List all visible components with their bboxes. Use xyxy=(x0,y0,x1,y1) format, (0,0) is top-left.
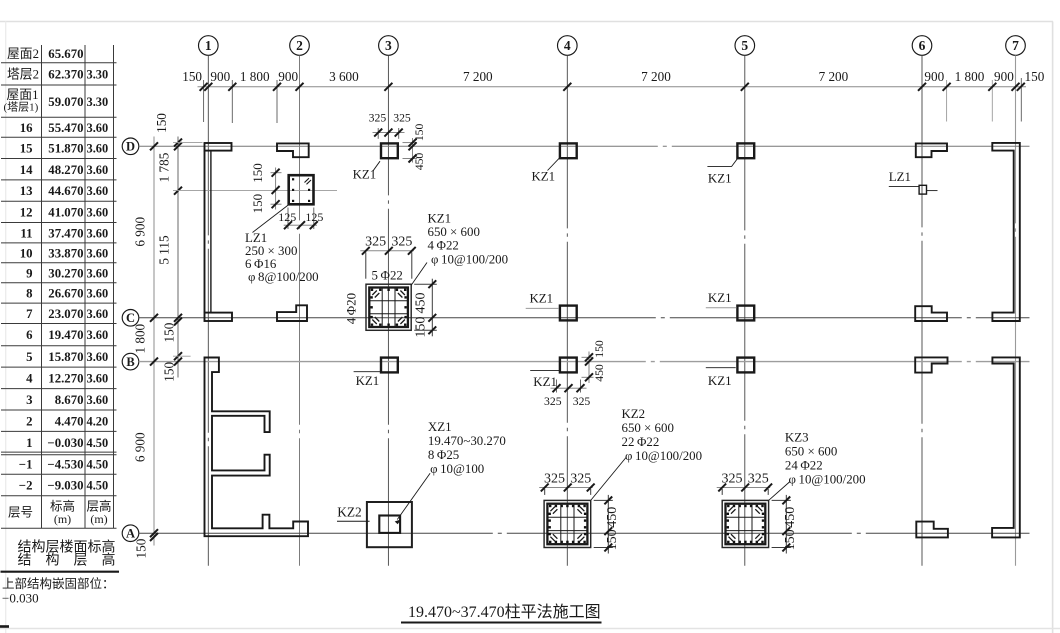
wall W3 pier C/axis2 xyxy=(277,305,307,321)
svg-text:65.670: 65.670 xyxy=(48,47,83,61)
svg-text:51.870: 51.870 xyxy=(48,141,83,155)
svg-text:3.30: 3.30 xyxy=(87,95,109,109)
KZ1 section dim 325/325 xyxy=(365,252,367,278)
svg-text:3.60: 3.60 xyxy=(87,163,109,177)
svg-text:16: 16 xyxy=(20,121,33,135)
svg-text:3.60: 3.60 xyxy=(87,328,109,342)
KZ1 section detail xyxy=(366,284,411,330)
KZ3 section detail xyxy=(722,500,768,547)
svg-text:450: 450 xyxy=(593,364,606,382)
svg-text:3.60: 3.60 xyxy=(87,266,109,280)
svg-text:33.870: 33.870 xyxy=(48,247,83,261)
svg-text:XZ1: XZ1 xyxy=(428,420,452,434)
label KZ1 C/axis5 xyxy=(706,307,737,309)
svg-text:3.60: 3.60 xyxy=(87,372,109,386)
svg-text:4.50: 4.50 xyxy=(87,458,109,472)
KZ2 square at A/axis3 xyxy=(367,502,412,547)
svg-text:4 Φ22: 4 Φ22 xyxy=(428,239,459,253)
note rule xyxy=(1,571,120,573)
storey table grid lines xyxy=(1,45,117,528)
top dimension extension lines xyxy=(203,80,205,122)
svg-text:900: 900 xyxy=(278,69,298,84)
svg-text:3 600: 3 600 xyxy=(329,69,359,84)
svg-text:9: 9 xyxy=(26,266,32,280)
svg-text:屋面1: 屋面1 xyxy=(7,88,39,102)
svg-text:KZ1: KZ1 xyxy=(533,375,557,389)
svg-text:55.470: 55.470 xyxy=(48,121,83,135)
KZ3 section dim 450/150 xyxy=(772,499,791,501)
svg-text:15.870: 15.870 xyxy=(48,350,83,364)
XZ1 core square xyxy=(379,516,400,533)
svg-text:8: 8 xyxy=(26,287,32,301)
svg-text:450: 450 xyxy=(413,153,426,171)
svg-text:−0.030: −0.030 xyxy=(47,436,83,450)
svg-text:2: 2 xyxy=(26,414,32,428)
svg-text:4: 4 xyxy=(564,38,571,53)
dim 325/325 above D/axis3 column xyxy=(377,128,379,139)
svg-text:5: 5 xyxy=(26,350,32,364)
svg-text:900: 900 xyxy=(210,69,230,84)
left dimension ticks inner xyxy=(174,139,182,147)
svg-text:650 × 600: 650 × 600 xyxy=(428,225,480,239)
LZ1 detail dim 125/125 xyxy=(287,208,289,230)
svg-text:450: 450 xyxy=(605,507,620,528)
svg-text:KZ3: KZ3 xyxy=(785,431,809,445)
svg-text:3.30: 3.30 xyxy=(87,68,109,82)
svg-text:1 800: 1 800 xyxy=(240,69,270,84)
svg-text:62.370: 62.370 xyxy=(48,68,83,82)
wall W7 pier C/axis6 xyxy=(915,306,947,321)
svg-text:层号: 层号 xyxy=(8,506,33,520)
LZ1 detail dim 150/150 xyxy=(271,172,282,174)
column KZ1 D/axis4 xyxy=(560,143,577,158)
svg-text:4.470: 4.470 xyxy=(55,414,84,428)
svg-text:150: 150 xyxy=(250,163,265,183)
svg-text:3.60: 3.60 xyxy=(87,121,109,135)
svg-text:6: 6 xyxy=(26,328,33,342)
svg-text:3.60: 3.60 xyxy=(87,226,109,240)
svg-text:150: 150 xyxy=(161,362,176,382)
svg-text:KZ1: KZ1 xyxy=(532,170,556,184)
svg-text:150: 150 xyxy=(1025,69,1045,84)
label KZ1 B/axis4 xyxy=(530,369,559,371)
title underline xyxy=(401,622,602,624)
svg-text:15: 15 xyxy=(20,141,33,155)
svg-text:5 Φ22: 5 Φ22 xyxy=(372,269,403,283)
svg-text:125: 125 xyxy=(278,210,296,224)
svg-text:KZ1: KZ1 xyxy=(708,291,732,305)
svg-text:φ 10@100/200: φ 10@100/200 xyxy=(789,473,866,487)
svg-text:6 900: 6 900 xyxy=(133,217,148,247)
svg-text:(m): (m) xyxy=(54,512,71,526)
wall W8 pier B/axis6 xyxy=(915,357,947,372)
svg-text:8 Φ25: 8 Φ25 xyxy=(428,448,459,462)
svg-text:KZ1: KZ1 xyxy=(708,171,732,185)
column KZ1 B/axis3 xyxy=(381,358,398,373)
svg-text:450: 450 xyxy=(414,293,429,314)
left inner extension lines xyxy=(173,142,203,144)
left outer dimension line xyxy=(153,137,155,546)
grid circles left D C B A xyxy=(122,138,139,155)
KZ3 section dim 325/325 xyxy=(721,489,723,495)
svg-text:325: 325 xyxy=(722,471,743,486)
LZ1 detail rebar dots xyxy=(292,178,310,202)
svg-text:150: 150 xyxy=(250,194,265,214)
svg-text:KZ1: KZ1 xyxy=(356,374,380,388)
svg-text:3.60: 3.60 xyxy=(87,393,109,407)
svg-text:59.070: 59.070 xyxy=(48,95,83,109)
svg-text:23.070: 23.070 xyxy=(48,307,83,321)
svg-text:125: 125 xyxy=(305,210,323,224)
KZ2 section leader xyxy=(591,458,626,501)
label KZ1 D/axis3 xyxy=(373,161,380,171)
page edge artifact left xyxy=(5,22,7,633)
KZ1 section dim 450/150 xyxy=(414,283,437,285)
svg-text:4.50: 4.50 xyxy=(87,479,109,493)
svg-text:KZ2: KZ2 xyxy=(337,504,362,519)
column LZ1 axis6 xyxy=(919,185,926,194)
label KZ1 B/axis3 xyxy=(354,371,381,373)
dim 150/450 right of B/axis4 column xyxy=(582,356,594,358)
page edge artifact top xyxy=(0,21,1053,23)
wall W5 axis7 D-C xyxy=(992,143,1020,321)
left dimension ticks outer xyxy=(150,142,158,150)
wall W10 pier A/axis6 xyxy=(916,522,948,538)
svg-text:24 Φ22: 24 Φ22 xyxy=(785,459,823,473)
KZ2 section dim 325/325 xyxy=(544,489,546,495)
svg-text:150: 150 xyxy=(413,123,426,141)
label KZ1 D/axis4 xyxy=(548,158,560,171)
svg-text:A: A xyxy=(126,527,135,541)
column KZ1 C/axis5 xyxy=(737,306,754,321)
svg-text:150: 150 xyxy=(154,113,169,133)
svg-text:14: 14 xyxy=(20,163,33,177)
svg-text:3.60: 3.60 xyxy=(87,247,109,261)
top dimension line xyxy=(198,86,1027,88)
horizontal axis lines D C B A xyxy=(139,145,1030,147)
svg-text:44.670: 44.670 xyxy=(48,184,83,198)
svg-text:4 Φ20: 4 Φ20 xyxy=(345,293,359,324)
svg-text:19.470: 19.470 xyxy=(48,328,83,342)
svg-text:10: 10 xyxy=(20,247,33,261)
svg-text:上部结构嵌固部位：: 上部结构嵌固部位： xyxy=(2,576,115,591)
bottom-left mark xyxy=(0,625,9,628)
svg-text:30.270: 30.270 xyxy=(48,266,83,280)
svg-text:450: 450 xyxy=(783,507,798,528)
svg-text:7 200: 7 200 xyxy=(641,69,671,84)
svg-text:KZ1: KZ1 xyxy=(353,168,377,182)
grid circles top 1-7 xyxy=(199,36,219,56)
svg-text:150: 150 xyxy=(605,529,620,550)
svg-text:900: 900 xyxy=(994,69,1014,84)
svg-text:KZ1: KZ1 xyxy=(530,292,554,306)
svg-text:48.270: 48.270 xyxy=(48,163,83,177)
svg-text:KZ1: KZ1 xyxy=(708,374,732,388)
svg-text:3: 3 xyxy=(385,38,392,53)
svg-text:φ 10@100: φ 10@100 xyxy=(430,462,484,476)
svg-text:−9.030: −9.030 xyxy=(47,479,83,493)
svg-text:(塔层1): (塔层1) xyxy=(4,101,39,114)
svg-text:1: 1 xyxy=(26,436,32,450)
svg-text:650 × 600: 650 × 600 xyxy=(785,445,837,459)
svg-text:325: 325 xyxy=(391,235,412,250)
svg-text:12: 12 xyxy=(20,205,33,219)
page edge artifact bottom xyxy=(0,628,1060,630)
svg-text:6 900: 6 900 xyxy=(133,432,148,462)
svg-text:150: 150 xyxy=(783,529,798,550)
svg-text:1 800: 1 800 xyxy=(133,323,148,353)
wall W4 E-wall axis1 B-A xyxy=(205,358,309,537)
svg-text:325: 325 xyxy=(544,471,565,486)
dim 325/325 below B/axis4 column xyxy=(556,380,558,393)
svg-text:6: 6 xyxy=(919,38,926,53)
svg-text:3.60: 3.60 xyxy=(87,205,109,219)
svg-text:3.60: 3.60 xyxy=(87,350,109,364)
svg-text:26.670: 26.670 xyxy=(48,287,83,301)
svg-text:22 Φ22: 22 Φ22 xyxy=(622,435,660,449)
left inner dimension line xyxy=(177,137,179,378)
dim 150/450 right of D/axis3 column xyxy=(403,142,418,144)
column KZ1 B/axis5 xyxy=(737,358,754,373)
svg-text:C: C xyxy=(126,311,135,325)
storey table text xyxy=(4,47,112,526)
svg-text:150: 150 xyxy=(134,538,149,558)
svg-text:37.470: 37.470 xyxy=(48,226,83,240)
svg-text:5: 5 xyxy=(741,38,748,53)
svg-text:4: 4 xyxy=(26,372,33,386)
svg-text:2: 2 xyxy=(296,38,303,53)
svg-text:325: 325 xyxy=(573,395,591,408)
svg-text:1 785: 1 785 xyxy=(157,152,172,182)
svg-text:4.50: 4.50 xyxy=(87,436,109,450)
svg-text:3.60: 3.60 xyxy=(87,307,109,321)
label KZ1 C/axis4 xyxy=(526,307,559,309)
svg-text:−2: −2 xyxy=(19,479,33,493)
svg-text:325: 325 xyxy=(393,112,411,125)
KZ2 section dim 450/150 xyxy=(594,499,613,501)
svg-text:−0.030: −0.030 xyxy=(2,591,39,606)
svg-text:1 800: 1 800 xyxy=(955,69,985,84)
svg-text:325: 325 xyxy=(369,112,387,125)
KZ1 section leader xyxy=(411,263,427,286)
svg-text:325: 325 xyxy=(570,471,591,486)
svg-text:325: 325 xyxy=(544,395,562,408)
column KZ1 B/axis4 xyxy=(560,358,577,373)
svg-text:7: 7 xyxy=(26,307,33,321)
LZ1 detail corner tie marks xyxy=(305,178,310,182)
column KZ1 C/axis4 xyxy=(560,306,577,321)
wall W1 axis1 D-C bracket xyxy=(205,143,232,151)
svg-text:3.60: 3.60 xyxy=(87,141,109,155)
svg-text:19.470~30.270: 19.470~30.270 xyxy=(428,434,506,448)
svg-text:7 200: 7 200 xyxy=(819,69,849,84)
svg-text:325: 325 xyxy=(365,235,386,250)
column KZ1 D/axis5 xyxy=(737,143,754,158)
svg-text:3.60: 3.60 xyxy=(87,287,109,301)
LZ1 leader xyxy=(253,205,289,233)
svg-text:屋面2: 屋面2 xyxy=(7,47,39,61)
svg-text:1: 1 xyxy=(205,38,212,53)
svg-text:−1: −1 xyxy=(19,458,33,472)
column KZ1 D/axis3 xyxy=(381,143,398,158)
svg-text:(m): (m) xyxy=(90,512,107,526)
LZ1 detail square xyxy=(289,175,314,204)
svg-text:150: 150 xyxy=(182,69,202,84)
svg-text:13: 13 xyxy=(20,184,33,198)
wall W9 axis7 B-A xyxy=(992,357,1020,537)
svg-text:150: 150 xyxy=(414,317,429,338)
vertical axis lines 1-7 xyxy=(207,55,209,565)
svg-text:12.270: 12.270 xyxy=(48,372,83,386)
svg-text:3.60: 3.60 xyxy=(87,184,109,198)
svg-text:7: 7 xyxy=(1012,38,1019,53)
svg-text:φ 8@100/200: φ 8@100/200 xyxy=(248,270,319,284)
svg-text:4.20: 4.20 xyxy=(87,414,109,428)
page edge artifact right xyxy=(1052,22,1054,633)
svg-text:塔层2: 塔层2 xyxy=(7,68,39,82)
svg-text:900: 900 xyxy=(924,69,944,84)
svg-text:5 115: 5 115 xyxy=(157,235,172,265)
svg-text:KZ1: KZ1 xyxy=(428,212,452,226)
svg-text:φ 10@100/200: φ 10@100/200 xyxy=(625,449,702,463)
wall W6 pier D/axis6 xyxy=(916,143,947,157)
svg-text:150: 150 xyxy=(593,340,606,358)
svg-text:LZ1: LZ1 xyxy=(889,170,911,184)
svg-text:250 × 300: 250 × 300 xyxy=(245,244,297,258)
label KZ1 B/axis5 xyxy=(706,367,736,369)
svg-text:LZ1: LZ1 xyxy=(245,231,267,245)
svg-text:3: 3 xyxy=(26,393,32,407)
KZ2 section detail xyxy=(544,500,591,547)
svg-text:325: 325 xyxy=(748,471,769,486)
svg-text:B: B xyxy=(126,355,134,369)
svg-text:650 × 600: 650 × 600 xyxy=(622,421,674,435)
svg-text:150: 150 xyxy=(161,322,176,342)
svg-text:19.470~37.470柱平法施工图: 19.470~37.470柱平法施工图 xyxy=(408,603,601,621)
svg-text:D: D xyxy=(126,140,135,154)
label KZ1 D/axis5 xyxy=(707,166,731,168)
svg-text:6 Φ16: 6 Φ16 xyxy=(245,257,277,271)
svg-text:结 构 层 高: 结 构 层 高 xyxy=(18,552,116,569)
svg-text:11: 11 xyxy=(20,226,32,240)
wall W2 pier D/axis2 xyxy=(277,143,309,157)
svg-text:−4.530: −4.530 xyxy=(47,458,83,472)
svg-text:φ 10@100/200: φ 10@100/200 xyxy=(431,253,508,267)
svg-text:7 200: 7 200 xyxy=(463,69,493,84)
svg-text:41.070: 41.070 xyxy=(48,205,83,219)
top dimension ticks xyxy=(200,83,208,91)
XZ1 leader xyxy=(397,473,430,519)
KZ3 section leader xyxy=(769,482,790,501)
svg-text:8.670: 8.670 xyxy=(55,393,84,407)
svg-text:KZ2: KZ2 xyxy=(622,407,646,421)
